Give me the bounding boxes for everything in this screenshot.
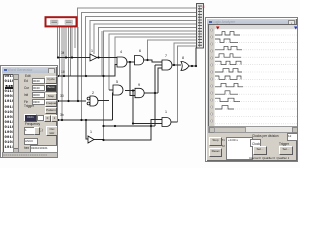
node row3 dots	[57, 100, 59, 102]
wire row4	[57, 119, 113, 121]
OR gate U10	[181, 62, 189, 71]
node low dots	[102, 125, 104, 127]
schematic wires	[57, 48, 196, 141]
wire U7 vert	[154, 65, 156, 126]
wire loop 6	[99, 28, 197, 58]
junction dots	[57, 56, 197, 141]
AND gate U5	[113, 85, 123, 95]
wire buf2 in	[86, 120, 88, 139]
svg-text:1: 1	[91, 49, 93, 53]
wire row2	[57, 65, 117, 77]
wire loop 10	[148, 40, 197, 60]
display DISP2	[65, 20, 73, 24]
wire U5 branch	[132, 91, 134, 124]
wire U10 out	[189, 48, 196, 67]
wire d4	[63, 27, 65, 76]
svg-text:2: 2	[92, 91, 94, 95]
wire row1b	[97, 57, 117, 59]
NOR-input gate U2	[87, 96, 98, 106]
fields	[25, 74, 31, 78]
wire d1	[57, 27, 59, 58]
wire U6 out	[144, 60, 162, 62]
wire loop bus to analyzer connector	[78, 8, 196, 140]
wire row1	[57, 57, 90, 59]
wire U5 in1	[109, 89, 113, 91]
wire loop 7b	[101, 31, 103, 76]
wire d9	[74, 27, 76, 48]
scrollbar	[208, 126, 299, 133]
wire loop 7	[104, 31, 197, 140]
node out dots	[191, 65, 193, 67]
wire loop 8	[109, 34, 196, 90]
wire low3	[104, 125, 156, 127]
schematic SVG layer	[0, 0, 300, 168]
wire row3	[57, 100, 86, 102]
wire loop 9	[115, 37, 196, 76]
wire U4 branch	[130, 62, 135, 96]
waveform area	[208, 24, 299, 127]
wire labels	[60, 51, 65, 117]
wire d3	[61, 27, 63, 120]
wire loop 12	[178, 46, 197, 122]
scrollbar	[13, 74, 20, 153]
wire low4	[133, 123, 162, 125]
wire buf2 out	[94, 139, 104, 141]
wire d8	[71, 27, 73, 58]
wire U8 rise	[158, 68, 162, 93]
wire U5 out	[125, 90, 135, 92]
svg-text:5: 5	[116, 80, 118, 84]
wire loop 2	[82, 13, 197, 121]
AND gate U9	[162, 118, 171, 127]
display DISP1	[51, 20, 59, 24]
LED row	[2, 152, 58, 160]
buffer U3	[88, 136, 94, 143]
svg-text:7: 7	[165, 54, 167, 58]
Logic Analyzer window	[205, 17, 298, 162]
OR gate U6	[135, 56, 144, 65]
svg-text:3b: 3b	[60, 113, 64, 117]
svg-text:1: 1	[90, 130, 92, 134]
value list	[3, 74, 15, 153]
display wire bundle	[58, 27, 79, 120]
wire d5	[65, 27, 67, 58]
AND gate U4	[117, 57, 127, 67]
control panel	[209, 137, 222, 146]
svg-text:10: 10	[61, 70, 65, 74]
wire d6	[68, 27, 70, 101]
Word Generator window	[0, 65, 58, 158]
wire U7 out	[172, 64, 181, 66]
svg-text:1: 1	[165, 110, 167, 114]
wire loop 4	[90, 21, 196, 58]
OR gate U8	[135, 88, 144, 97]
wire loop 1	[78, 8, 196, 101]
svg-text:6: 6	[139, 49, 141, 53]
wire U8 out	[144, 92, 158, 94]
logic analyzer connector icon	[197, 4, 205, 49]
wire U2 out	[98, 100, 109, 102]
wire row4 rise	[112, 93, 115, 120]
wire loop 5	[94, 24, 196, 54]
svg-text:4: 4	[120, 50, 122, 54]
red selection box	[46, 17, 77, 26]
node row2 dots	[57, 75, 59, 77]
svg-text:30: 30	[60, 94, 64, 98]
svg-text:3f: 3f	[61, 51, 64, 55]
AND gate U7	[162, 60, 172, 70]
wire U4 out	[127, 61, 135, 63]
node row1 dots	[57, 56, 59, 58]
svg-text:9: 9	[138, 83, 140, 87]
wire d2	[59, 27, 61, 76]
wire loop 11	[174, 43, 196, 65]
wire U7 in2	[155, 64, 162, 66]
wire d10	[77, 27, 79, 101]
buffer U1	[90, 54, 97, 61]
node row4 dots	[57, 119, 59, 121]
wire low1	[104, 120, 163, 141]
svg-text:8: 8	[182, 56, 184, 60]
wire U9 out	[171, 121, 178, 123]
wire d7	[70, 27, 72, 76]
wire loop 3	[86, 17, 197, 77]
gate labels	[90, 49, 184, 134]
